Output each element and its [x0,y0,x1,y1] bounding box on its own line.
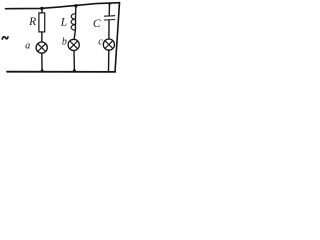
svg-text:c: c [98,36,103,47]
svg-text:C: C [93,18,101,30]
svg-text:b: b [62,37,67,48]
svg-text:a: a [25,40,30,51]
svg-text:R: R [28,16,36,28]
svg-text:L: L [60,17,67,29]
